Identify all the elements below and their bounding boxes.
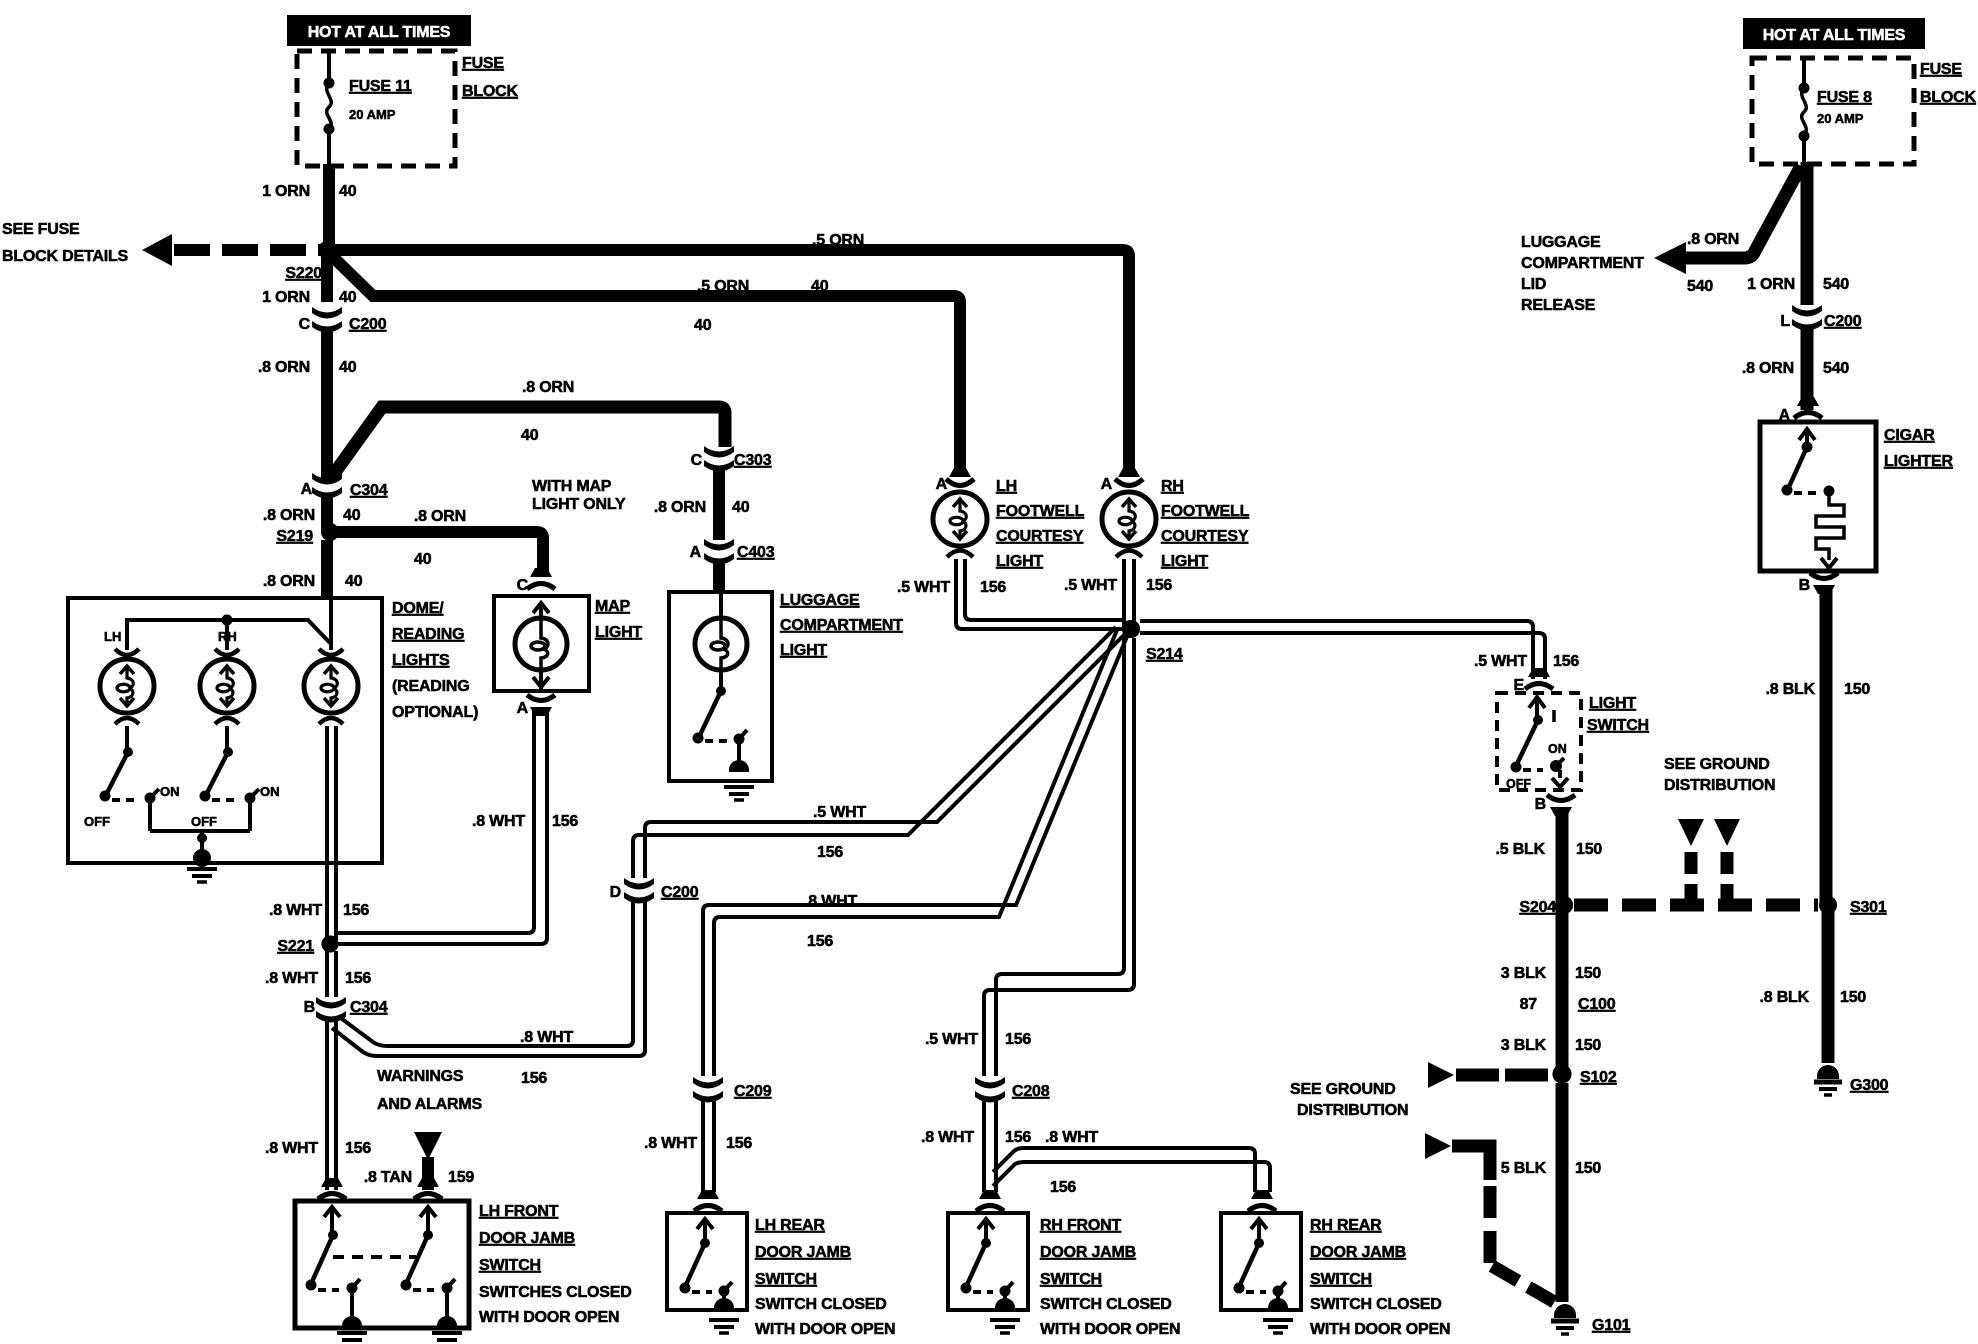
svg-text:A: A bbox=[1101, 476, 1113, 493]
RH rear door jamb switch terminal bbox=[1248, 1190, 1276, 1211]
svg-text:FUSE 11: FUSE 11 bbox=[349, 78, 412, 95]
svg-text:.8 BLK: .8 BLK bbox=[1766, 681, 1816, 698]
svg-text:SWITCH: SWITCH bbox=[1040, 1271, 1102, 1288]
svg-text:1 ORN: 1 ORN bbox=[262, 183, 310, 200]
svg-text:BLOCK: BLOCK bbox=[1920, 89, 1977, 106]
svg-text:C200: C200 bbox=[349, 316, 387, 333]
wire .8 ORN 40 (C200 to C304) bbox=[258, 330, 357, 480]
svg-text:40: 40 bbox=[345, 573, 363, 590]
off-page arrow stub 1 (ground distribution) bbox=[1678, 819, 1704, 899]
svg-text:FOOTWELL: FOOTWELL bbox=[1161, 503, 1250, 520]
LH front door jamb switch grounds bbox=[337, 1333, 462, 1344]
wire 5 BLK 150 (S102 to G101) bbox=[1501, 1083, 1602, 1302]
cigar lighter terminal B bbox=[1799, 573, 1838, 594]
svg-text:FUSE 8: FUSE 8 bbox=[1817, 89, 1872, 106]
RH rear door jamb switch box bbox=[1221, 1213, 1450, 1338]
svg-text:WITH DOOR OPEN: WITH DOOR OPEN bbox=[1310, 1321, 1450, 1338]
cigar lighter box bbox=[1760, 422, 1953, 571]
svg-text:.8 ORN: .8 ORN bbox=[1742, 360, 1794, 377]
svg-text:.8 ORN: .8 ORN bbox=[258, 359, 310, 376]
wire (C403 to luggage compartment light) bbox=[713, 561, 725, 592]
svg-text:40: 40 bbox=[732, 499, 750, 516]
svg-text:A: A bbox=[690, 544, 702, 561]
svg-text:.8 ORN: .8 ORN bbox=[1687, 231, 1739, 248]
wire .5 WHT 156 (S214 to light switch E, double line) bbox=[1140, 621, 1579, 679]
svg-text:C403: C403 bbox=[737, 544, 775, 561]
svg-text:S301: S301 bbox=[1850, 899, 1887, 916]
svg-text:C304: C304 bbox=[350, 482, 388, 499]
svg-text:SEE GROUND: SEE GROUND bbox=[1664, 756, 1770, 773]
svg-text:.8 WHT: .8 WHT bbox=[644, 1135, 697, 1152]
wire 1 ORN 40 (S220 to C200) bbox=[262, 250, 357, 306]
svg-text:156: 156 bbox=[343, 902, 369, 919]
fuse block label text (right) bbox=[1920, 61, 1977, 106]
svg-text:LIGHT ONLY: LIGHT ONLY bbox=[532, 496, 626, 513]
dome third (reading optional) lamp bbox=[304, 649, 358, 724]
see ground distribution label (lower) bbox=[1290, 1081, 1408, 1119]
svg-text:C209: C209 bbox=[734, 1083, 772, 1100]
svg-text:.8 WHT: .8 WHT bbox=[265, 970, 318, 987]
svg-text:SWITCH CLOSED: SWITCH CLOSED bbox=[755, 1296, 887, 1313]
svg-text:.5 WHT: .5 WHT bbox=[1064, 577, 1117, 594]
svg-text:B: B bbox=[1535, 796, 1546, 813]
dome/reading lights box bbox=[68, 598, 478, 863]
LH front door jamb switch box bbox=[295, 1201, 632, 1328]
connector C200 terminal L bbox=[1780, 305, 1861, 331]
svg-text:COMPARTMENT: COMPARTMENT bbox=[1521, 255, 1644, 272]
svg-text:COURTESY: COURTESY bbox=[1161, 528, 1249, 545]
svg-text:40: 40 bbox=[339, 289, 357, 306]
svg-text:OFF: OFF bbox=[1506, 777, 1531, 791]
svg-text:ON: ON bbox=[260, 784, 280, 799]
off-page arrow to G101 bbox=[1425, 1133, 1556, 1303]
RH rear door jamb switch mechanism bbox=[1234, 1219, 1294, 1333]
svg-text:AND ALARMS: AND ALARMS bbox=[377, 1096, 482, 1113]
svg-text:RH: RH bbox=[218, 629, 237, 644]
splice S301 bbox=[1819, 896, 1887, 916]
svg-text:DISTRIBUTION: DISTRIBUTION bbox=[1664, 777, 1775, 794]
RH front door jamb switch mechanism bbox=[961, 1219, 1021, 1333]
LH footwell courtesy light lamp bbox=[933, 478, 1085, 570]
connector C209 bbox=[692, 1077, 772, 1103]
LH front door jamb switch left mechanism bbox=[306, 1207, 363, 1329]
svg-text:DISTRIBUTION: DISTRIBUTION bbox=[1297, 1102, 1408, 1119]
LH front door jamb switch terminal (right) bbox=[414, 1178, 442, 1199]
svg-text:156: 156 bbox=[345, 970, 371, 987]
wire .8 BLK 150 (cigar lighter B to S301) bbox=[1766, 585, 1871, 901]
svg-text:.8 ORN: .8 ORN bbox=[263, 573, 315, 590]
svg-text:156: 156 bbox=[726, 1135, 752, 1152]
map light lamp bbox=[515, 603, 567, 691]
wire .5 ORN 40 (S220 to RH footwell light) bbox=[327, 232, 1129, 476]
svg-text:BLOCK: BLOCK bbox=[462, 83, 519, 100]
svg-text:40: 40 bbox=[343, 507, 361, 524]
wire .8 WHT 156 (C208 to RH front door jamb switch, double line) bbox=[921, 1100, 1031, 1192]
wire .8 ORN 40 (C303 to C403) bbox=[654, 468, 750, 540]
off-page triangle and wire .8 TAN 159 (to LH front door jamb switch) bbox=[364, 1132, 475, 1190]
svg-text:.8 WHT: .8 WHT bbox=[472, 813, 525, 830]
dashed wire (S204 to S301) bbox=[1574, 899, 1818, 912]
svg-text:S220: S220 bbox=[285, 265, 322, 282]
svg-text:5 BLK: 5 BLK bbox=[1501, 1160, 1547, 1177]
splice S214 bbox=[1122, 620, 1183, 663]
LH rear door jamb switch terminal bbox=[694, 1190, 722, 1211]
svg-text:SWITCH: SWITCH bbox=[479, 1257, 541, 1274]
svg-text:FUSE: FUSE bbox=[1920, 61, 1962, 78]
svg-text:DOOR JAMB: DOOR JAMB bbox=[479, 1230, 575, 1247]
svg-text:156: 156 bbox=[817, 844, 843, 861]
svg-text:.8 WHT: .8 WHT bbox=[265, 1140, 318, 1157]
RH front door jamb switch terminal bbox=[976, 1190, 1004, 1211]
connector C303 terminal C bbox=[691, 446, 772, 472]
splice S220 bbox=[285, 242, 335, 283]
svg-text:WITH DOOR OPEN: WITH DOOR OPEN bbox=[755, 1321, 895, 1338]
svg-text:150: 150 bbox=[1576, 841, 1602, 858]
ground G101 bbox=[1551, 1304, 1631, 1334]
svg-text:C200: C200 bbox=[661, 884, 699, 901]
wire .5 WHT 156 (S214 to C208, double line) bbox=[925, 638, 1134, 1076]
splice S102 bbox=[1553, 1065, 1617, 1087]
light switch terminal E bbox=[1514, 668, 1553, 694]
light switch box (dashed) bbox=[1497, 693, 1649, 790]
svg-text:156: 156 bbox=[1553, 653, 1579, 670]
svg-text:.8 WHT: .8 WHT bbox=[520, 1029, 573, 1046]
wire .5 WHT 156 (LH footwell light to S214, double line) bbox=[897, 559, 1122, 629]
LH front door jamb switch right mechanism bbox=[401, 1207, 458, 1329]
svg-text:156: 156 bbox=[521, 1070, 547, 1087]
svg-text:D: D bbox=[610, 884, 621, 901]
svg-text:C303: C303 bbox=[734, 452, 772, 469]
LH rear door jamb switch mechanism bbox=[680, 1219, 740, 1333]
warnings and alarms label bbox=[377, 1068, 482, 1113]
svg-text:.8 ORN: .8 ORN bbox=[414, 508, 466, 525]
svg-text:RH FRONT: RH FRONT bbox=[1040, 1217, 1121, 1234]
svg-text:READING: READING bbox=[392, 626, 464, 643]
svg-text:SEE FUSE: SEE FUSE bbox=[2, 221, 80, 238]
svg-text:LH: LH bbox=[104, 629, 121, 644]
svg-text:156: 156 bbox=[1050, 1179, 1076, 1196]
svg-text:WITH DOOR OPEN: WITH DOOR OPEN bbox=[479, 1309, 619, 1326]
svg-text:LIGHTS: LIGHTS bbox=[392, 652, 450, 669]
map light terminal C bbox=[517, 568, 555, 594]
svg-text:150: 150 bbox=[1575, 1037, 1601, 1054]
svg-text:SWITCH: SWITCH bbox=[1587, 717, 1649, 734]
map light box bbox=[494, 596, 642, 691]
svg-text:LIGHT: LIGHT bbox=[996, 553, 1043, 570]
splice S219 bbox=[276, 524, 338, 546]
svg-text:HOT AT ALL TIMES: HOT AT ALL TIMES bbox=[308, 24, 451, 41]
svg-text:COURTESY: COURTESY bbox=[996, 528, 1084, 545]
svg-text:.5 BLK: .5 BLK bbox=[1496, 841, 1546, 858]
luggage compartment light box bbox=[669, 592, 903, 781]
wire .8 WHT 156 (C304 B branch to warnings and alarms / C200 D, double line) bbox=[332, 900, 645, 1087]
svg-text:20 AMP: 20 AMP bbox=[1817, 111, 1864, 126]
see ground distribution label (upper) bbox=[1664, 756, 1775, 794]
light switch mechanism bbox=[1506, 697, 1568, 791]
fuse F8 20 AMP bbox=[1799, 58, 1873, 164]
svg-text:.5 WHT: .5 WHT bbox=[925, 1031, 978, 1048]
svg-text:BLOCK DETAILS: BLOCK DETAILS bbox=[2, 248, 129, 265]
dome RH lamp bbox=[200, 649, 254, 724]
svg-text:C304: C304 bbox=[350, 999, 388, 1016]
wire .5 ORN 40 (S220 to LH footwell light) bbox=[330, 254, 960, 476]
splice dots (overlay) bbox=[222, 241, 1838, 1084]
dome LH lamp bbox=[100, 649, 154, 724]
svg-text:DOME/: DOME/ bbox=[392, 600, 444, 617]
wire .8 WHT 156 (dome lamp to S221, double line) bbox=[269, 726, 369, 940]
luggage compartment lamp bbox=[695, 592, 747, 670]
svg-text:.8 WHT: .8 WHT bbox=[804, 893, 857, 910]
svg-text:40: 40 bbox=[339, 359, 357, 376]
hot at all times label (left) bbox=[287, 15, 471, 46]
hot at all times label (right) bbox=[1743, 18, 1925, 49]
svg-text:1 ORN: 1 ORN bbox=[1747, 276, 1795, 293]
svg-text:159: 159 bbox=[448, 1169, 474, 1186]
RH footwell courtesy light lamp bbox=[1102, 478, 1250, 570]
LH front door jamb switch linking dashed wire bbox=[333, 1255, 416, 1259]
svg-text:.5 WHT: .5 WHT bbox=[897, 579, 950, 596]
svg-text:DOOR JAMB: DOOR JAMB bbox=[755, 1244, 851, 1261]
svg-text:.8 ORN: .8 ORN bbox=[263, 507, 315, 524]
wire .8 WHT 156 (S221 to C304 B, double line) bbox=[265, 951, 371, 997]
svg-text:RH: RH bbox=[1161, 478, 1184, 495]
svg-text:SWITCH CLOSED: SWITCH CLOSED bbox=[1040, 1296, 1172, 1313]
wire .8 ORN 540 (branch to luggage compartment lid release) bbox=[1654, 166, 1801, 295]
fuse block (left, dashed box) bbox=[297, 51, 455, 166]
svg-text:.8 ORN: .8 ORN bbox=[654, 499, 706, 516]
svg-text:B: B bbox=[1799, 577, 1810, 594]
svg-text:A: A bbox=[301, 481, 313, 498]
svg-text:SWITCH: SWITCH bbox=[1310, 1271, 1372, 1288]
dashed arrow to fuse block details bbox=[142, 234, 327, 266]
svg-text:1 ORN: 1 ORN bbox=[262, 289, 310, 306]
with map light only label bbox=[532, 478, 626, 513]
wire .5 WHT 156 (C200 D to S214, double line) bbox=[633, 627, 1127, 878]
svg-text:3 BLK: 3 BLK bbox=[1501, 965, 1547, 982]
wire .5 BLK 150 (light switch B to S204) bbox=[1496, 808, 1603, 901]
svg-text:3 BLK: 3 BLK bbox=[1501, 1037, 1547, 1054]
svg-text:FOOTWELL: FOOTWELL bbox=[996, 503, 1085, 520]
svg-text:S221: S221 bbox=[277, 938, 314, 955]
svg-text:ON: ON bbox=[1548, 742, 1567, 756]
svg-text:40: 40 bbox=[694, 317, 712, 334]
svg-text:156: 156 bbox=[1146, 577, 1172, 594]
svg-text:S204: S204 bbox=[1519, 899, 1556, 916]
svg-text:SWITCH CLOSED: SWITCH CLOSED bbox=[1310, 1296, 1442, 1313]
svg-text:LH: LH bbox=[996, 478, 1017, 495]
svg-text:RELEASE: RELEASE bbox=[1521, 297, 1596, 314]
RH front door jamb switch box bbox=[948, 1213, 1180, 1338]
svg-text:WARNINGS: WARNINGS bbox=[377, 1068, 464, 1085]
svg-text:.5 WHT: .5 WHT bbox=[813, 804, 866, 821]
light switch terminal B bbox=[1535, 795, 1575, 816]
svg-text:40: 40 bbox=[414, 551, 432, 568]
wire 1 ORN 540 (fuse 8 to C200 L) bbox=[1747, 162, 1849, 305]
svg-text:SWITCH: SWITCH bbox=[755, 1271, 817, 1288]
svg-text:LID: LID bbox=[1521, 276, 1546, 293]
connector C200 terminal D bbox=[610, 878, 699, 904]
svg-text:LH REAR: LH REAR bbox=[755, 1217, 825, 1234]
svg-text:40: 40 bbox=[339, 183, 357, 200]
fuse block label text (left) bbox=[462, 55, 519, 100]
svg-text:.5 WHT: .5 WHT bbox=[1474, 653, 1527, 670]
connector C208 bbox=[974, 1077, 1050, 1103]
svg-text:C: C bbox=[691, 452, 703, 469]
LH front door jamb switch terminal (left) bbox=[318, 1178, 346, 1199]
LH footwell light terminal A bbox=[936, 468, 974, 493]
connector C304 terminal B bbox=[304, 997, 388, 1023]
svg-text:A: A bbox=[517, 700, 529, 717]
wire .8 WHT 156 (C209 to LH rear door jamb switch, double line) bbox=[644, 1100, 752, 1192]
dome switches common ground wire bbox=[150, 800, 250, 856]
off-page arrow into S102 bbox=[1428, 1062, 1551, 1088]
svg-text:C200: C200 bbox=[1824, 313, 1862, 330]
svg-text:156: 156 bbox=[552, 813, 578, 830]
svg-text:LIGHT: LIGHT bbox=[780, 642, 827, 659]
svg-text:HOT AT ALL TIMES: HOT AT ALL TIMES bbox=[1763, 27, 1906, 44]
svg-text:S102: S102 bbox=[1580, 1069, 1617, 1086]
see fuse block details label bbox=[2, 221, 129, 265]
svg-text:(READING: (READING bbox=[392, 678, 470, 695]
svg-text:OFF: OFF bbox=[84, 814, 110, 829]
svg-text:C208: C208 bbox=[1012, 1083, 1050, 1100]
wire .8 WHT 156 (C304 B to LH front door jamb switch, double line) bbox=[265, 1019, 371, 1190]
svg-text:.8 WHT: .8 WHT bbox=[1045, 1129, 1098, 1146]
svg-text:LIGHT: LIGHT bbox=[1589, 695, 1636, 712]
svg-text:40: 40 bbox=[521, 427, 539, 444]
fuse F11 20 AMP bbox=[324, 51, 412, 166]
wire 1 ORN 40 (fuse 11 to S220) bbox=[262, 164, 357, 250]
wire .8 BLK 150 (S301 to G300) bbox=[1760, 905, 1867, 1063]
wire .8 ORN 40 (S219 to dome lights) bbox=[263, 540, 363, 598]
dome lights internal bus wire bbox=[104, 598, 331, 650]
svg-text:156: 156 bbox=[345, 1140, 371, 1157]
fuse block (right, dashed box) bbox=[1752, 58, 1914, 164]
cigar lighter element bbox=[1782, 429, 1845, 568]
svg-text:ON: ON bbox=[160, 784, 180, 799]
wire .8 ORN 540 (C200 L to cigar lighter A) bbox=[1742, 328, 1850, 410]
wire .8 ORN 40 (S219 to map light C) bbox=[330, 508, 543, 577]
svg-text:.8 WHT: .8 WHT bbox=[269, 902, 322, 919]
svg-text:SWITCHES CLOSED: SWITCHES CLOSED bbox=[479, 1284, 632, 1301]
svg-text:LUGGAGE: LUGGAGE bbox=[1521, 234, 1601, 251]
LH rear door jamb switch box bbox=[667, 1213, 895, 1338]
svg-text:LIGHT: LIGHT bbox=[1161, 553, 1208, 570]
svg-text:LH FRONT: LH FRONT bbox=[479, 1203, 559, 1220]
svg-text:C: C bbox=[517, 577, 529, 594]
svg-text:C: C bbox=[299, 316, 311, 333]
dome RH switch bbox=[191, 726, 280, 829]
svg-text:.8 ORN: .8 ORN bbox=[522, 379, 574, 396]
wire .8 WHT 156 (branch to RH rear door jamb switch, double line) bbox=[993, 1129, 1270, 1196]
wire 3 BLK 150 (S204 to C100) bbox=[1501, 905, 1616, 1069]
luggage compartment light ground bbox=[724, 760, 754, 800]
svg-text:LIGHT: LIGHT bbox=[595, 624, 642, 641]
connector C304 terminal A bbox=[301, 473, 388, 499]
svg-text:.8 WHT: .8 WHT bbox=[921, 1129, 974, 1146]
connector C200 terminal C bbox=[299, 307, 387, 333]
svg-text:.5 ORN: .5 ORN bbox=[812, 232, 864, 249]
wire .8 ORN 40 (branch to luggage compartment light C303) bbox=[328, 379, 725, 482]
svg-text:LIGHTER: LIGHTER bbox=[1884, 453, 1953, 470]
svg-text:540: 540 bbox=[1823, 276, 1849, 293]
svg-text:20 AMP: 20 AMP bbox=[349, 107, 396, 122]
luggage compartment light switch bbox=[693, 670, 748, 770]
svg-text:WITH MAP: WITH MAP bbox=[532, 478, 612, 495]
svg-text:540: 540 bbox=[1687, 278, 1713, 295]
svg-text:DOOR JAMB: DOOR JAMB bbox=[1040, 1244, 1136, 1261]
svg-text:156: 156 bbox=[980, 579, 1006, 596]
wire .8 WHT 156 (S214 to C209, double line) bbox=[703, 630, 1128, 1076]
svg-text:.5 ORN: .5 ORN bbox=[697, 278, 749, 295]
svg-text:A: A bbox=[936, 476, 948, 493]
connector C403 terminal A bbox=[690, 539, 775, 565]
svg-text:.8 TAN: .8 TAN bbox=[364, 1169, 412, 1186]
svg-text:150: 150 bbox=[1575, 965, 1601, 982]
svg-text:RH REAR: RH REAR bbox=[1310, 1217, 1382, 1234]
svg-text:SEE GROUND: SEE GROUND bbox=[1290, 1081, 1396, 1098]
luggage compartment lid release label bbox=[1521, 234, 1644, 314]
svg-text:OFF: OFF bbox=[191, 814, 217, 829]
svg-text:150: 150 bbox=[1844, 681, 1870, 698]
svg-text:FUSE: FUSE bbox=[462, 55, 504, 72]
svg-text:C100: C100 bbox=[1578, 996, 1616, 1013]
off-page arrow stub 2 (ground distribution) bbox=[1714, 819, 1740, 899]
svg-text:MAP: MAP bbox=[595, 598, 630, 615]
cigar lighter terminal A bbox=[1779, 397, 1822, 424]
wire .8 WHT 156 (map light A to S221, double line) bbox=[338, 708, 578, 944]
svg-text:COMPARTMENT: COMPARTMENT bbox=[780, 617, 903, 634]
svg-text:.8 BLK: .8 BLK bbox=[1760, 989, 1810, 1006]
svg-text:156: 156 bbox=[1005, 1031, 1031, 1048]
svg-text:S219: S219 bbox=[276, 528, 313, 545]
wire .8 ORN 40 (C304 to S219) bbox=[263, 496, 361, 532]
splice S221 bbox=[277, 936, 338, 956]
svg-text:156: 156 bbox=[807, 933, 833, 950]
svg-text:G101: G101 bbox=[1592, 1317, 1631, 1334]
svg-text:LUGGAGE: LUGGAGE bbox=[780, 592, 860, 609]
svg-text:540: 540 bbox=[1823, 360, 1849, 377]
svg-text:87: 87 bbox=[1520, 996, 1538, 1013]
svg-text:CIGAR: CIGAR bbox=[1884, 427, 1935, 444]
svg-text:L: L bbox=[1780, 313, 1790, 330]
dome ground bbox=[187, 849, 217, 882]
dome LH switch bbox=[84, 726, 180, 829]
wire .5 WHT 156 (RH footwell light to S214, double line) bbox=[1064, 559, 1172, 627]
svg-text:DOOR JAMB: DOOR JAMB bbox=[1310, 1244, 1406, 1261]
ground G300 bbox=[1814, 1065, 1889, 1095]
svg-text:156: 156 bbox=[1005, 1129, 1031, 1146]
svg-text:150: 150 bbox=[1840, 989, 1866, 1006]
RH footwell light terminal A bbox=[1101, 468, 1143, 493]
svg-text:B: B bbox=[304, 999, 315, 1016]
svg-text:G300: G300 bbox=[1850, 1077, 1889, 1094]
svg-text:OPTIONAL): OPTIONAL) bbox=[392, 704, 478, 721]
svg-text:S214: S214 bbox=[1146, 646, 1183, 663]
splice S204 bbox=[1519, 896, 1573, 916]
svg-text:150: 150 bbox=[1575, 1160, 1601, 1177]
map light terminal A bbox=[517, 695, 555, 717]
svg-text:WITH DOOR OPEN: WITH DOOR OPEN bbox=[1040, 1321, 1180, 1338]
